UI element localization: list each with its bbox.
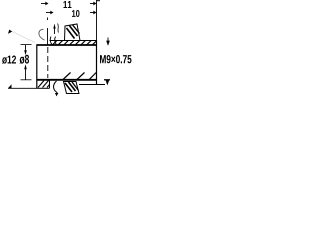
- dimension text 11: [64, 1, 72, 8]
- M9 leader arrow: [106, 38, 110, 46]
- thread label M9x0.75: [100, 55, 132, 63]
- left extension line (broken): [47, 18, 49, 45]
- right extension line: [96, 0, 98, 41]
- flange right face (lower): [49, 80, 51, 89]
- top wall hatch: [53, 41, 97, 45]
- ø8 bottom extension tick: [21, 79, 32, 81]
- dim 11 left arrow: [41, 2, 49, 6]
- right extension top tick: [97, 0, 101, 2]
- bore bottom extension tick right: [104, 79, 110, 81]
- dim 11 right arrow: [90, 2, 97, 6]
- right end face: [96, 41, 98, 85]
- dim 10 left arrow: [46, 11, 54, 15]
- ø12 faint leader line: [12, 32, 35, 43]
- dimension text 10: [72, 10, 80, 17]
- flange bottom extension line: [8, 87, 37, 89]
- body OD bottom line: [79, 84, 97, 86]
- bottom leader curl: [54, 81, 58, 94]
- thread start arrow: [53, 24, 55, 34]
- dim 10 right arrow: [90, 11, 97, 15]
- flange bottom hatch: [38, 81, 50, 88]
- knurled collar section top: [65, 24, 81, 41]
- knurled collar section bottom: [64, 82, 80, 94]
- flange bottom edge: [37, 87, 50, 89]
- ø12 top arrow: [8, 30, 12, 34]
- ø12 leader curve (faint): [39, 29, 45, 40]
- bottom wall hatch: [63, 73, 96, 80]
- bore top line: [37, 44, 97, 46]
- M9 lower arrow: [106, 80, 110, 85]
- dimension text ø12: [2, 56, 16, 64]
- center dashed line: [47, 47, 49, 78]
- ø8 top extension tick: [21, 44, 32, 46]
- thread runout squiggle right: [55, 37, 57, 45]
- thread runout squiggle upper: [58, 24, 59, 33]
- bore bottom line: [37, 79, 97, 81]
- body OD top line: [50, 40, 97, 42]
- dimension text ø8: [20, 55, 30, 64]
- bottom leader arrowhead: [55, 93, 58, 96]
- ø8 dimension line upper: [24, 45, 27, 55]
- OD bottom extension right: [97, 84, 106, 86]
- left end face: [36, 45, 38, 89]
- ø8 dimension line lower: [24, 64, 27, 79]
- ø12 bottom arrow: [8, 84, 11, 88]
- thread runout squiggle left: [50, 37, 52, 45]
